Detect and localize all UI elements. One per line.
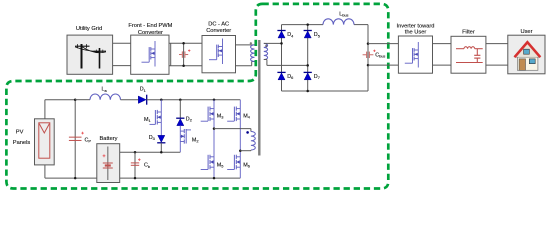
wire top rail left (75, 99, 90, 101)
junction Cp bottom (74, 177, 77, 180)
svg-text:Converter: Converter (138, 30, 163, 36)
svg-text:M4: M4 (243, 113, 251, 119)
block Battery (97, 144, 120, 183)
block User (508, 35, 545, 74)
label M1 (144, 117, 151, 123)
junction bridge mid-left node (213, 127, 216, 130)
junction Cb top (134, 151, 137, 154)
transformer winding (bridge) (251, 132, 255, 151)
junction dc-link top (182, 42, 185, 45)
label Cbus (375, 53, 385, 59)
phase dot bridge winding (246, 131, 249, 134)
wire filter to user bottom (486, 64, 508, 66)
wire winding to mid-right (240, 149, 251, 152)
svg-text:Converter: Converter (206, 28, 231, 34)
icon utility poles (75, 44, 106, 69)
wire dc-ac to primary top (236, 44, 255, 46)
svg-text:Utility Grid: Utility Grid (76, 26, 102, 32)
polarity mark primary (250, 42, 252, 44)
svg-text:D4: D4 (287, 32, 294, 38)
label D5 (314, 32, 320, 38)
junction D3 bottom (160, 151, 163, 154)
icon house (515, 42, 541, 70)
svg-text:M5: M5 (217, 163, 224, 169)
transistor M5 (201, 129, 214, 179)
junction bus bottom stub (367, 64, 370, 67)
wire dc-link bottom (169, 65, 202, 67)
label D3 (149, 135, 155, 141)
svg-text:La: La (102, 87, 108, 93)
label Cb (144, 163, 150, 169)
svg-text:D3: D3 (149, 135, 155, 141)
wire secondary top lead (264, 42, 282, 44)
junction M1 drain (160, 98, 163, 101)
label Lbus (339, 12, 348, 18)
wire utility to front-end (top) (113, 42, 131, 44)
label DC-AC Converter (206, 21, 231, 34)
svg-text:Battery: Battery (99, 136, 117, 142)
wire rail to D2 (179, 100, 181, 119)
label M2 (192, 137, 199, 143)
junction dc-link bottom (182, 64, 185, 67)
label Front-End PWM Converter (128, 23, 172, 36)
svg-text:D6: D6 (287, 74, 293, 80)
transistor M4 (227, 100, 240, 151)
mosfet icon in Front-End box (142, 41, 156, 67)
svg-text:Inverter toward: Inverter toward (397, 23, 435, 29)
junction bridge mid-right node (239, 149, 242, 152)
capacitor Cb (131, 158, 141, 165)
svg-text:M2: M2 (192, 137, 199, 143)
block Filter (451, 36, 486, 73)
wire Cp branch (74, 100, 76, 178)
wire mid-left to winding (214, 129, 251, 132)
transformer secondary winding (264, 43, 268, 59)
diode D5 (304, 31, 312, 38)
svg-text:M1: M1 (144, 117, 151, 123)
wire dc-ac to primary bottom (236, 62, 255, 66)
transistor M2 (180, 126, 191, 153)
junction bus top stub (367, 42, 370, 45)
label M5 (217, 163, 224, 169)
wire bus to inverter bottom (368, 64, 398, 66)
wire bridge bottom rail (282, 90, 369, 92)
transistor M3 (201, 100, 214, 129)
wire filter to user top (486, 43, 508, 45)
wire bus to inverter top (368, 43, 398, 45)
diode D2 (176, 118, 184, 125)
label User (520, 29, 532, 35)
svg-text:PV: PV (16, 130, 24, 136)
block Inverter toward the User (398, 36, 432, 73)
icon pv cell (39, 123, 50, 158)
junction bridge bottom-right (306, 90, 309, 93)
wire bus cap branch (367, 25, 369, 91)
junction bridge top-right (306, 23, 309, 26)
wire pv bottom (45, 165, 97, 178)
junction D2 top (179, 98, 182, 101)
svg-text:Lbus: Lbus (339, 12, 348, 18)
label D4 (287, 32, 294, 38)
icon LC filter (456, 47, 483, 63)
svg-text:M3: M3 (217, 113, 224, 119)
junction bridge mid-right (306, 64, 309, 67)
block DC-AC Converter (202, 36, 236, 73)
icon battery cell (103, 147, 113, 181)
wire inverter to filter bottom (433, 64, 452, 66)
label D1 (140, 87, 146, 93)
svg-text:D1: D1 (140, 87, 146, 93)
svg-text:Front - End PWM: Front - End PWM (128, 23, 172, 29)
microinverter boundary (green dashed) (6, 4, 388, 189)
junction Cb bottom (134, 177, 137, 180)
capacitor Cbus (363, 50, 376, 58)
diode D3 (157, 135, 165, 142)
svg-text:Cbus: Cbus (375, 53, 385, 59)
label M6 (243, 163, 250, 169)
block Front-End PWM Converter (131, 35, 169, 74)
label Utility Grid (76, 26, 102, 32)
label M3 (217, 113, 224, 119)
transformer primary winding (top) (251, 45, 255, 62)
wire inverter to filter top (433, 43, 452, 45)
svg-text:User: User (520, 29, 532, 35)
diode D4 (277, 31, 285, 38)
wire bridge top rail (282, 24, 369, 26)
wire bridge left leg (281, 25, 283, 91)
svg-text:D2: D2 (186, 117, 192, 123)
mosfet icon in Inverter box (405, 42, 419, 68)
diode D1 (138, 95, 146, 105)
wire D3 to battery rail (160, 143, 162, 152)
block Utility Grid (67, 35, 113, 74)
wire battery top (120, 151, 181, 153)
wire utility to front-end (bottom) (113, 65, 131, 67)
capacitor Cp (69, 132, 84, 141)
svg-text:M6: M6 (243, 163, 250, 169)
transistor M6 (227, 151, 240, 178)
label Cp (85, 137, 92, 143)
junction bridge bottom-left node (213, 177, 216, 180)
svg-text:Panels: Panels (13, 140, 31, 146)
capacitor dc-link (179, 49, 190, 57)
svg-text:D7: D7 (314, 74, 320, 80)
block PV Panels (35, 119, 55, 165)
wire top rail mid (121, 99, 139, 101)
transistor M1 (150, 100, 162, 136)
wire bridge right leg (307, 25, 309, 91)
wire dc-link top (169, 42, 202, 44)
label M4 (243, 113, 251, 119)
mosfet icon in DC-AC box (209, 39, 223, 65)
wire pv top (45, 100, 75, 119)
svg-text:DC - AC: DC - AC (208, 21, 229, 27)
svg-text:the User: the User (405, 30, 427, 36)
svg-text:CP: CP (85, 137, 92, 143)
label Inverter toward the User (397, 23, 435, 35)
junction bridge mid-left (280, 42, 283, 45)
wire Cb branch (134, 152, 136, 178)
diode D6 (277, 72, 285, 79)
label D7 (314, 74, 320, 80)
label D6 (287, 74, 293, 80)
transformer core (258, 40, 260, 156)
wire dc-link cap branch (183, 43, 185, 65)
label La (102, 87, 108, 93)
svg-text:Cb: Cb (144, 163, 150, 169)
wire secondary bottom lead (264, 60, 308, 66)
label Battery (99, 136, 117, 142)
label D2 (186, 117, 192, 123)
svg-text:D5: D5 (314, 32, 320, 38)
svg-text:Filter: Filter (462, 30, 475, 36)
junction Cp top (74, 98, 77, 101)
wire battery bottom rail (120, 177, 241, 179)
diode D7 (304, 72, 312, 79)
junction M3 drain (213, 98, 216, 101)
inductor Lbus (323, 19, 354, 25)
wire dc-link left vertical (170, 43, 172, 65)
inductor La (90, 94, 120, 100)
polarity mark secondary (265, 45, 267, 47)
label PV Panels (13, 130, 31, 147)
wire top rail right (147, 99, 241, 101)
label Filter (462, 30, 475, 36)
